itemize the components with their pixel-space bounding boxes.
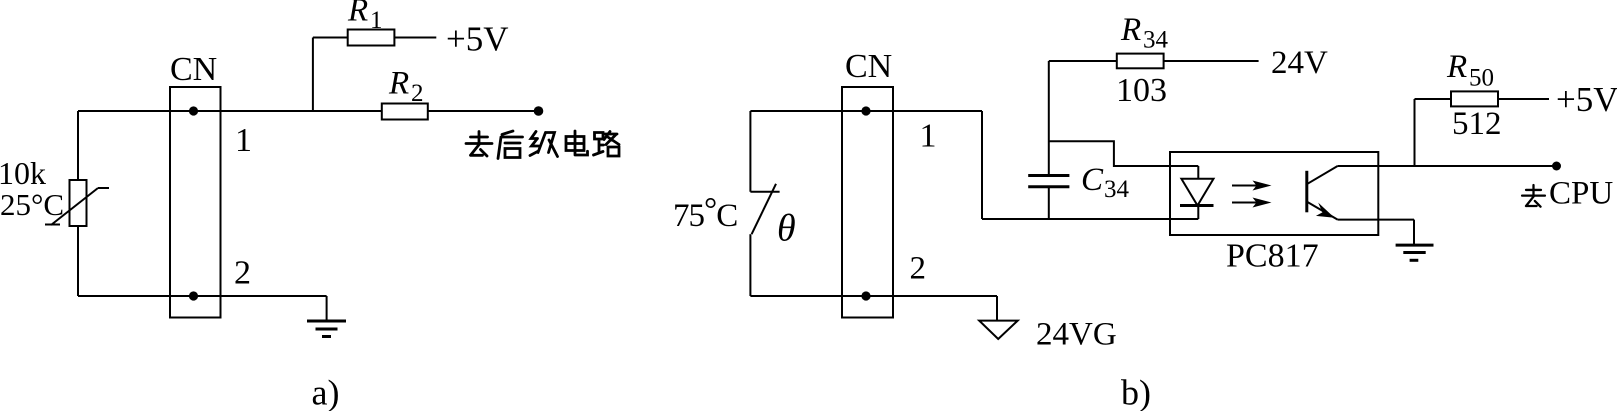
thermal switch blade: [752, 184, 776, 234]
optocoupler U1 body: [1170, 152, 1378, 235]
svg-text:R: R: [347, 0, 368, 29]
node pin2 dot (a): [189, 291, 198, 300]
wire emitter row: [1338, 219, 1414, 221]
wire cap bottom lead: [1048, 187, 1050, 219]
svg-text:+5V: +5V: [1556, 80, 1617, 119]
wire pin1 drop vertical: [981, 111, 983, 219]
wire anode branch: [1049, 141, 1199, 166]
wire LED cathode row: [982, 218, 1198, 220]
wire R50 right lead: [1498, 98, 1549, 100]
svg-text:2: 2: [411, 80, 424, 107]
svg-text:a): a): [312, 373, 340, 411]
svg-text:25°C: 25°C: [0, 187, 64, 222]
transistor emitter arrowhead: [1316, 203, 1335, 218]
wire left vertical top (a): [77, 111, 79, 180]
label qu-hou-ji-dian-lu: [466, 131, 619, 159]
node output dot (b): [1552, 162, 1561, 171]
char qu (b): [1522, 185, 1545, 207]
wire pin2 to ground (a) handled above; ground symbol (a): [307, 296, 346, 337]
LED cathode bar: [1180, 204, 1214, 207]
wire R34 left lead: [1049, 60, 1117, 62]
svg-text:θ: θ: [777, 208, 796, 250]
svg-text:R: R: [388, 66, 409, 102]
wire left vertical bottom (b): [749, 234, 751, 296]
LED anode lead: [1197, 166, 1199, 179]
svg-text:24VG: 24VG: [1036, 317, 1117, 353]
svg-text:+5V: +5V: [446, 20, 509, 59]
wire R34 right lead: [1164, 60, 1259, 62]
svg-text:R: R: [1120, 12, 1141, 48]
resistor R1: [348, 30, 395, 46]
node output dot (a): [534, 106, 544, 116]
svg-text:1: 1: [920, 118, 937, 155]
resistor R34: [1117, 54, 1164, 69]
wire pin1 row (b): [750, 110, 982, 112]
svg-text:CN: CN: [170, 51, 217, 88]
svg-text:75°C: 75°C: [673, 192, 737, 234]
node pin1 dot (a): [189, 106, 198, 115]
label qu CPU: [1522, 185, 1545, 207]
transistor collector: [1307, 166, 1338, 184]
capacitor C34 bottom plate: [1028, 185, 1069, 188]
resistor R50: [1451, 91, 1498, 106]
thermal switch contact tick: [750, 191, 779, 193]
char qu: [466, 132, 492, 157]
transistor emitter: [1307, 202, 1338, 220]
char ji: [530, 132, 558, 157]
thermistor RT1 diagonal mark: [45, 188, 109, 225]
svg-text:CPU: CPU: [1549, 176, 1613, 212]
light arrow 1: [1232, 181, 1272, 191]
svg-text:103: 103: [1116, 72, 1167, 109]
wire R1 right lead: [394, 37, 436, 39]
node pin2 dot (b): [861, 291, 870, 300]
char lu: [594, 132, 620, 157]
svg-text:34: 34: [1104, 176, 1130, 203]
LED cathode lead: [1197, 206, 1199, 220]
svg-text:24V: 24V: [1271, 45, 1328, 81]
connector CN (a): [170, 87, 221, 318]
wire R50 left lead: [1415, 98, 1452, 100]
svg-text:R: R: [1446, 49, 1467, 85]
wire R1 left lead: [313, 37, 348, 39]
char hou: [498, 131, 523, 159]
wire R1 branch vertical: [312, 38, 314, 112]
svg-text:34: 34: [1143, 27, 1169, 54]
wire left vertical top (b): [749, 111, 751, 192]
svg-text:2: 2: [910, 251, 927, 287]
capacitor C34 top plate: [1028, 174, 1069, 177]
wire 24VG drop: [996, 296, 998, 321]
wire R50 branch vertical: [1414, 99, 1416, 166]
connector CN (b): [842, 87, 893, 318]
svg-text:10k: 10k: [0, 155, 46, 191]
transistor base bar: [1305, 171, 1308, 213]
LED triangle: [1181, 179, 1213, 206]
svg-text:C: C: [1081, 162, 1104, 198]
wire cap top lead: [1048, 61, 1050, 176]
wire pin1 row (a): [78, 110, 382, 112]
wire pin2 row (a): [78, 295, 327, 297]
wire R2 right lead: [428, 110, 539, 112]
svg-text:b): b): [1121, 373, 1151, 411]
ground (b right): [1396, 220, 1434, 261]
svg-text:CN: CN: [845, 48, 892, 85]
node pin1 dot (b): [861, 106, 870, 115]
wire pin2 row (b): [750, 295, 997, 297]
svg-text:1: 1: [235, 122, 252, 159]
resistor R2: [382, 104, 428, 120]
light arrow 2: [1232, 198, 1272, 208]
svg-text:2: 2: [234, 255, 251, 292]
wire left vertical bottom (a): [77, 226, 79, 296]
ground 24VG arrow: [979, 321, 1018, 339]
svg-text:50: 50: [1469, 65, 1494, 92]
char dian: [566, 131, 588, 155]
svg-text:1: 1: [370, 7, 383, 34]
wire collector row to output: [1338, 165, 1553, 167]
svg-text:PC817: PC817: [1226, 238, 1319, 275]
thermistor RT1 body: [70, 180, 87, 226]
svg-text:512: 512: [1452, 106, 1502, 142]
